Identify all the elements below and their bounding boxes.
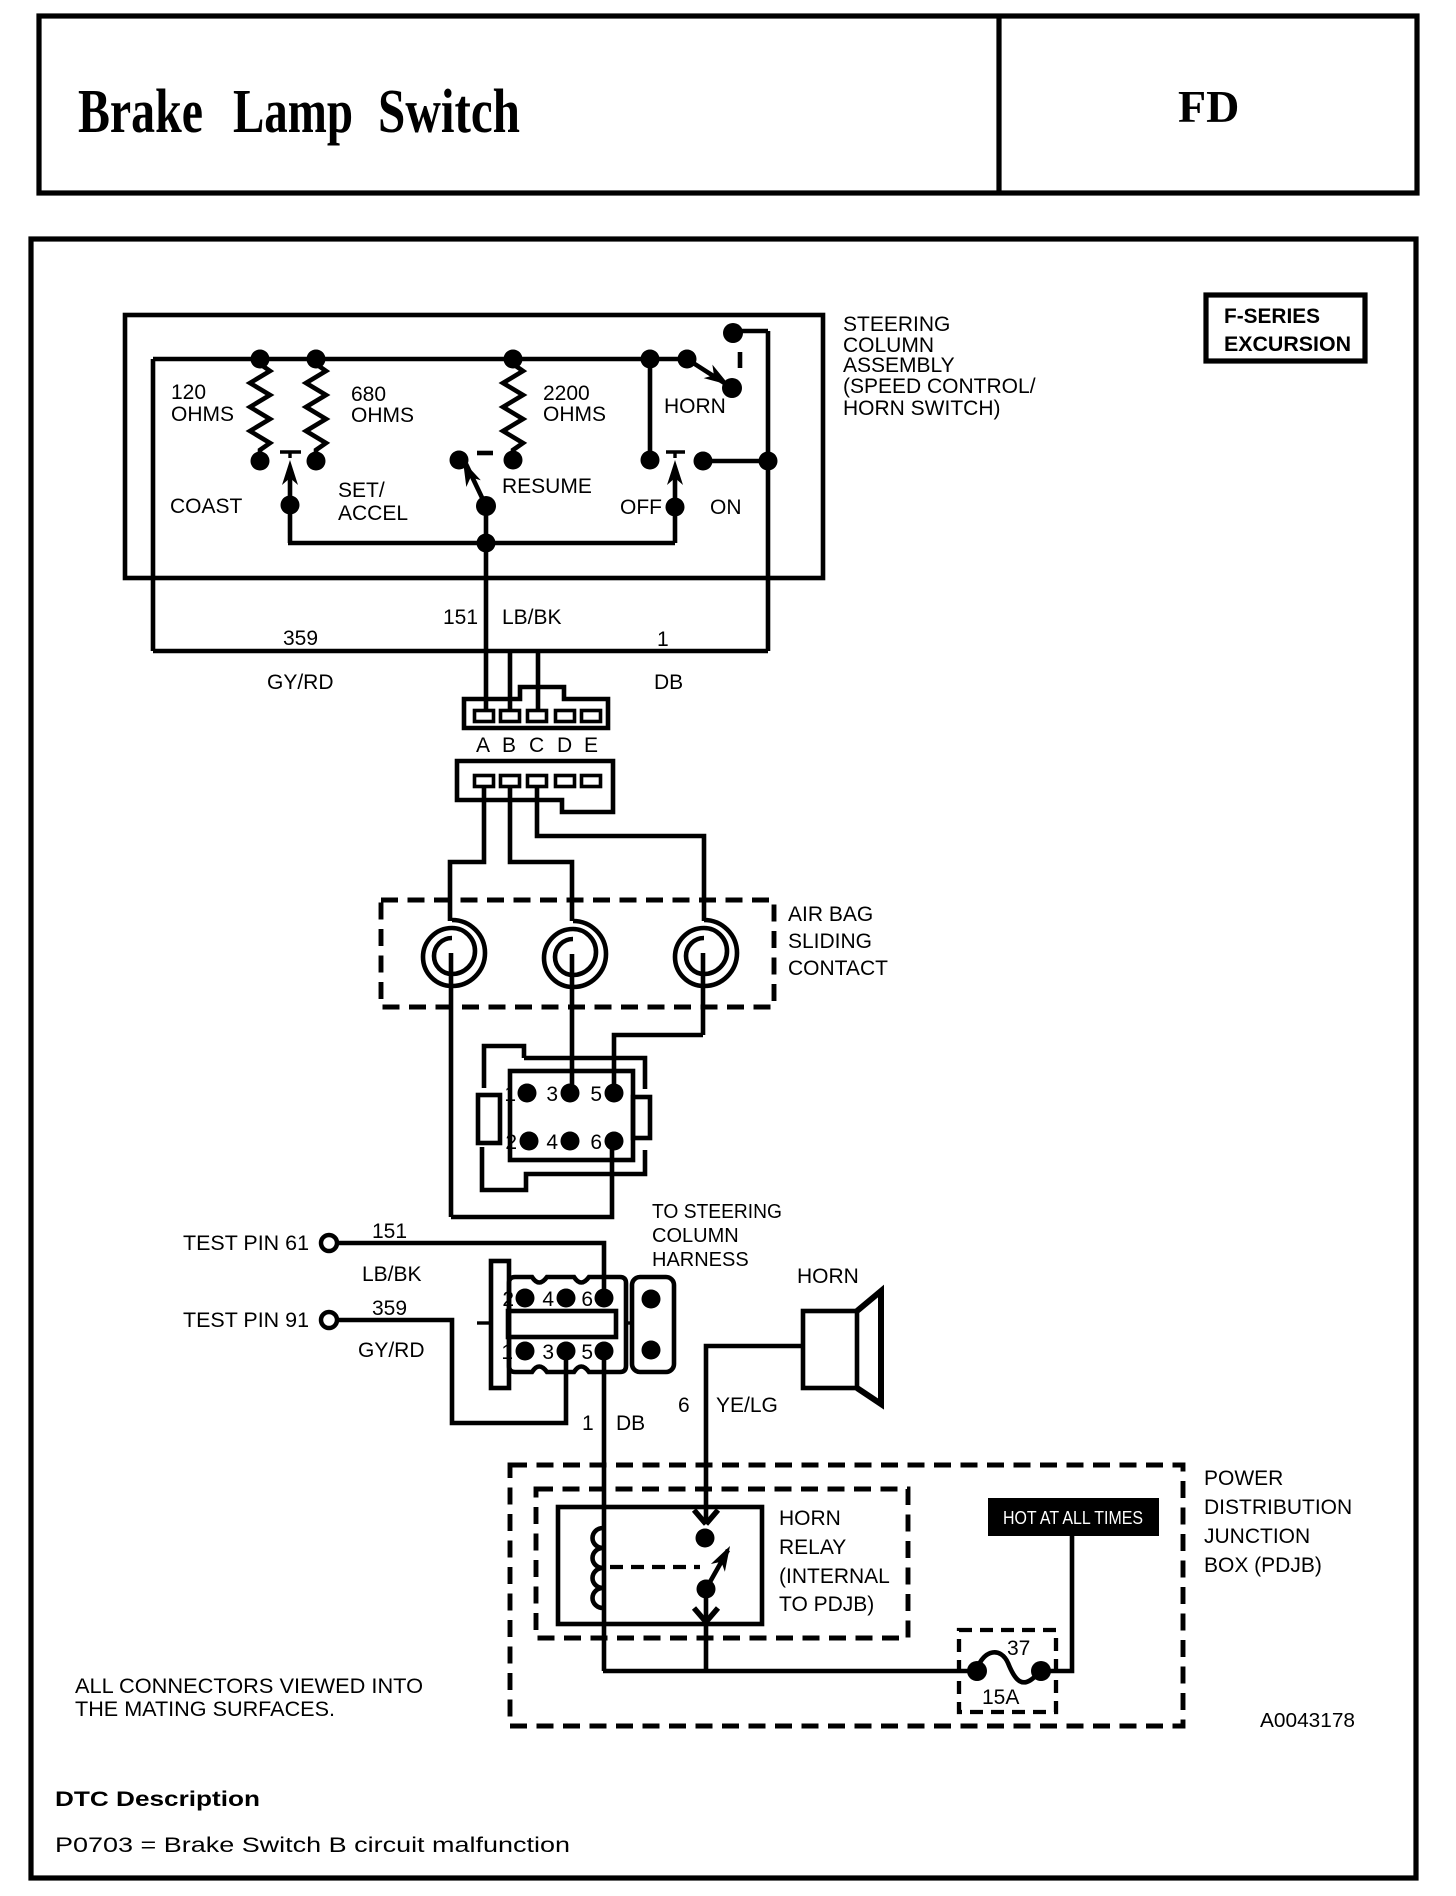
svg-text:POWER: POWER [1204, 1467, 1283, 1490]
COAST contact dot [251, 452, 270, 471]
relay blade [706, 1550, 728, 1589]
svg-text:HORN: HORN [664, 395, 726, 418]
svg-text:COAST: COAST [170, 495, 243, 518]
OFF wiper contact tick [666, 452, 685, 458]
svg-text:SLIDING: SLIDING [788, 930, 872, 953]
svg-text:4: 4 [546, 1131, 558, 1154]
resistor R3 2200 OHMS [503, 359, 523, 452]
RESUME switch blade [466, 464, 486, 506]
svg-text:F-SERIES: F-SERIES [1224, 305, 1320, 328]
junction dot node 151 [477, 534, 496, 553]
slip ring coil 3 [675, 920, 737, 986]
wire pin A to slip ring 1 [450, 786, 484, 921]
svg-text:6: 6 [590, 1131, 602, 1154]
horn switch dashed gap [738, 352, 743, 368]
svg-text:YE/LG: YE/LG [716, 1394, 778, 1417]
svg-text:RESUME: RESUME [502, 475, 592, 498]
C1 pin B slot [501, 711, 520, 722]
C3 pin 2 [520, 1132, 539, 1151]
svg-text:680: 680 [351, 383, 386, 406]
C4 pin 3 [557, 1342, 576, 1361]
connector C1 body [464, 687, 608, 728]
steering column assembly box [125, 315, 823, 578]
C3 pin 4 [561, 1132, 580, 1151]
ON contact dot [694, 452, 713, 471]
svg-text:1: 1 [582, 1412, 594, 1435]
wire: upper bus [153, 357, 687, 362]
svg-text:TEST PIN 91: TEST PIN 91 [183, 1309, 309, 1332]
HOT AT ALL TIMES [988, 1498, 1159, 1536]
svg-text:AIR BAG: AIR BAG [788, 903, 873, 926]
svg-text:ALL CONNECTORS VIEWED INTO: ALL CONNECTORS VIEWED INTO [75, 1675, 423, 1698]
C1 pin A slot [475, 711, 494, 722]
svg-text:151: 151 [372, 1220, 407, 1243]
svg-text:Lamp: Lamp [233, 78, 353, 146]
svg-text:RELAY: RELAY [779, 1536, 846, 1559]
C4 pin 1 [516, 1342, 535, 1361]
horn relay dashed outline [536, 1489, 908, 1638]
svg-text:2200: 2200 [543, 382, 590, 405]
slip ring coil 1 [423, 920, 485, 986]
svg-text:HORN SWITCH): HORN SWITCH) [843, 397, 1000, 420]
svg-text:3: 3 [546, 1083, 558, 1106]
fuse 37 dashed box [959, 1630, 1056, 1712]
C4 center key slot [508, 1311, 616, 1337]
svg-text:STEERING: STEERING [843, 313, 950, 336]
svg-text:B: B [502, 734, 516, 757]
C4 pin 4 [557, 1289, 576, 1308]
wire 1 DB pin5 to relay [602, 1359, 607, 1671]
C4 side piece [632, 1277, 674, 1372]
svg-text:151: 151 [443, 606, 478, 629]
svg-text:OHMS: OHMS [171, 403, 234, 426]
svg-text:LB/BK: LB/BK [502, 606, 562, 629]
title block frame [39, 16, 1417, 193]
resistor R1 120 OHMS [250, 359, 270, 452]
SET/ACCEL wiper contact tick [280, 452, 301, 458]
svg-text:JUNCTION: JUNCTION [1204, 1525, 1310, 1548]
horn switch pivot dot [678, 350, 697, 369]
svg-text:ON: ON [710, 496, 742, 519]
svg-text:HORN: HORN [779, 1507, 841, 1530]
wire 6 YE/LG horn to relay [706, 1346, 803, 1524]
svg-text:37: 37 [1007, 1637, 1030, 1660]
C2 pin B slot [501, 776, 520, 787]
svg-text:2: 2 [502, 1288, 514, 1311]
svg-text:TO PDJB): TO PDJB) [779, 1593, 874, 1616]
relay coil [593, 1528, 604, 1608]
svg-text:P0703 = Brake Switch B circu: P0703 = Brake Switch B circuit malfuncti… [55, 1834, 570, 1857]
wire bus to pin C [536, 651, 541, 716]
wire ring 1 to pin 6 [451, 1149, 612, 1217]
svg-text:FD: FD [1178, 81, 1239, 132]
C2 pin C slot [528, 776, 547, 787]
C2 pin E slot [582, 776, 601, 787]
C1 pin C slot [528, 711, 547, 722]
C4 right tick [626, 1321, 634, 1324]
connector C4 left tab [491, 1261, 509, 1388]
svg-text:2: 2 [505, 1131, 517, 1154]
C1 pin D slot [556, 711, 575, 722]
svg-text:HOT AT ALL TIMES: HOT AT ALL TIMES [1003, 1508, 1143, 1528]
junction dots on upper bus [251, 350, 270, 369]
svg-text:E: E [584, 734, 598, 757]
svg-text:4: 4 [542, 1288, 554, 1311]
svg-text:GY/RD: GY/RD [267, 671, 334, 694]
OFF arrow [667, 460, 683, 485]
horn relay box [558, 1507, 762, 1624]
svg-text:A0043178: A0043178 [1260, 1710, 1355, 1732]
svg-text:ACCEL: ACCEL [338, 502, 408, 525]
svg-text:120: 120 [171, 381, 206, 404]
svg-text:359: 359 [372, 1297, 407, 1320]
svg-text:1: 1 [657, 628, 669, 651]
C3 pin 3 [561, 1084, 580, 1103]
svg-text:EXCURSION: EXCURSION [1224, 333, 1351, 356]
RESUME dashed gap [477, 451, 493, 456]
svg-text:BOX (PDJB): BOX (PDJB) [1204, 1554, 1322, 1577]
wire pin B to slip ring 2 [510, 786, 572, 921]
lower bus [288, 541, 675, 546]
svg-text:HARNESS: HARNESS [652, 1249, 749, 1271]
C4 left tick [477, 1321, 491, 1324]
relay link dashed [610, 1565, 700, 1569]
svg-text:CONTACT: CONTACT [788, 957, 888, 980]
resistor R2 680 OHMS [306, 359, 326, 452]
R2 lower contact dot [307, 452, 326, 471]
C4 pin 5 [595, 1342, 614, 1361]
svg-text:OHMS: OHMS [543, 403, 606, 426]
svg-text:SET/: SET/ [338, 479, 385, 502]
svg-text:TEST PIN 61: TEST PIN 61 [183, 1232, 309, 1255]
C4 main body [509, 1277, 626, 1372]
svg-text:OHMS: OHMS [351, 404, 414, 427]
C3 right key tab [633, 1097, 650, 1138]
svg-text:DB: DB [654, 671, 683, 694]
wire ring 3 to pin 5 [614, 1035, 703, 1093]
svg-text:ASSEMBLY: ASSEMBLY [843, 354, 955, 377]
slip ring coil 2 [544, 921, 606, 987]
C1 pin E slot [582, 711, 601, 722]
svg-text:HORN: HORN [797, 1265, 859, 1288]
connector C3 outer shell [484, 1046, 524, 1088]
wire 151 LB/BK drop [484, 543, 489, 712]
svg-text:THE MATING SURFACES.: THE MATING SURFACES. [75, 1698, 335, 1721]
title block divider [996, 16, 1001, 193]
C3 left key tab [478, 1095, 500, 1143]
wire bus to pin B [508, 651, 513, 716]
C2 pin D slot [556, 776, 575, 787]
relay lower contact arrow [704, 1589, 709, 1622]
horn switch blade [687, 359, 729, 386]
R3 lower contact dot [504, 451, 523, 470]
svg-text:5: 5 [581, 1341, 593, 1364]
svg-text:(SPEED CONTROL/: (SPEED CONTROL/ [843, 375, 1036, 398]
fuse 15A element [977, 1652, 1039, 1682]
C3 pin 6 [605, 1132, 624, 1151]
svg-text:5: 5 [590, 1083, 602, 1106]
horn switch upper contact [723, 323, 743, 343]
relay upper fixed contact [694, 1510, 718, 1524]
svg-text:A: A [476, 734, 490, 757]
svg-text:(INTERNAL: (INTERNAL [779, 1565, 890, 1588]
C3 pin 5 [605, 1084, 624, 1103]
svg-text:Switch: Switch [378, 78, 520, 146]
svg-text:C: C [529, 734, 544, 757]
svg-text:DB: DB [616, 1412, 645, 1435]
C4 pin 6 [595, 1289, 614, 1308]
svg-text:OFF: OFF [620, 496, 662, 519]
SET/ACCEL arrow [282, 460, 298, 485]
C3 pin 1 [518, 1084, 537, 1103]
wire 359 to pin 3 [337, 1320, 566, 1423]
svg-text:TO STEERING: TO STEERING [652, 1201, 782, 1223]
svg-text:6: 6 [678, 1394, 690, 1417]
C3 inner shell [510, 1071, 633, 1160]
wire pin C to slip ring 3 [537, 786, 704, 921]
svg-text:DISTRIBUTION: DISTRIBUTION [1204, 1496, 1352, 1519]
svg-text:COLUMN: COLUMN [652, 1225, 739, 1247]
wire 151 to pin 6 [337, 1243, 604, 1292]
svg-text:3: 3 [542, 1341, 554, 1364]
svg-text:15A: 15A [982, 1686, 1019, 1709]
wire relay to fuse [603, 1622, 977, 1671]
wire: 1 DB right drop [766, 331, 771, 651]
wire: connector collector bus [153, 649, 768, 654]
power distribution junction box dashed outline [510, 1465, 1183, 1726]
C2 pin A slot [475, 776, 494, 787]
wire: 359 GY/RD left drop [151, 359, 156, 651]
RESUME left contact dot [450, 451, 469, 470]
svg-text:LB/BK: LB/BK [362, 1263, 422, 1286]
svg-text:1: 1 [504, 1083, 516, 1106]
connector C2 body [457, 761, 613, 812]
svg-text:GY/RD: GY/RD [358, 1339, 425, 1362]
svg-text:6: 6 [581, 1288, 593, 1311]
svg-text:1: 1 [501, 1341, 513, 1364]
svg-text:359: 359 [283, 627, 318, 650]
air bag sliding contact dashed box [381, 900, 774, 1007]
svg-text:DTC Description: DTC Description [55, 1788, 260, 1811]
svg-text:Brake: Brake [78, 78, 203, 146]
F-SERIES EXCURSION label box [1206, 295, 1365, 361]
svg-text:D: D [557, 734, 572, 757]
wire hot feed to fuse [1045, 1536, 1072, 1671]
OFF fixed contact [648, 359, 653, 460]
C4 pin 2 [516, 1289, 535, 1308]
